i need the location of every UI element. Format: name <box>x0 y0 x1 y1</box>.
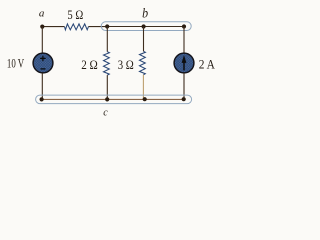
value label 3 ohm <box>118 57 134 72</box>
node a label <box>39 8 45 20</box>
wire: 2ohm bottom stub <box>106 75 108 99</box>
wire: 2ohm top stub <box>106 27 108 52</box>
node c highlight loop <box>36 95 192 104</box>
wire: right column top bus down to current source <box>183 27 185 54</box>
wire: left column node a down to voltage source <box>41 27 43 54</box>
wire: top segment node a to 5ohm resistor <box>42 26 64 28</box>
wire: node c bottom bus <box>42 98 184 100</box>
junction dot: bottom of 2ohm <box>105 97 109 101</box>
node b label <box>142 6 148 21</box>
node a junction dot <box>40 25 44 29</box>
voltage source V1 10V <box>33 53 53 73</box>
wire: current source down to bottom bus <box>183 73 185 99</box>
svg-text:10 V: 10 V <box>7 55 25 70</box>
svg-text:b: b <box>142 6 148 21</box>
wire: voltage source down to bottom bus <box>41 73 43 100</box>
resistor 3ohm (zigzag) <box>140 51 146 75</box>
junction dot: top of 2ohm <box>105 24 109 28</box>
svg-text:a: a <box>39 8 45 20</box>
svg-text:3 Ω: 3 Ω <box>118 57 134 72</box>
junction dot: bottom of voltage source <box>40 97 44 101</box>
svg-text:c: c <box>103 107 108 118</box>
junction dot: top of current source <box>182 24 186 28</box>
resistor 5ohm (zigzag) <box>65 24 89 30</box>
node c label <box>103 107 108 118</box>
value label 2 ohm <box>81 57 98 72</box>
junction dot: top of 3ohm <box>142 24 146 28</box>
junction dot: bottom of current source <box>182 97 186 101</box>
junction dot: bottom of 3ohm <box>143 97 147 101</box>
value label 2 A <box>199 56 216 71</box>
wire: node b top bus <box>107 26 184 28</box>
value label 5 ohm <box>67 7 83 22</box>
value label 10 V <box>7 55 25 70</box>
current source I1 2A <box>174 53 194 73</box>
svg-text:2 Ω: 2 Ω <box>81 57 98 72</box>
wire: 3ohm bottom stub (tan) <box>142 75 144 100</box>
svg-text:2 A: 2 A <box>199 56 216 71</box>
wire: 3ohm top stub <box>143 27 145 52</box>
wire: 5ohm resistor to node b bus <box>89 26 108 28</box>
resistor 2ohm (zigzag) <box>104 52 110 75</box>
node b highlight loop <box>101 22 191 31</box>
svg-text:5 Ω: 5 Ω <box>67 7 83 22</box>
